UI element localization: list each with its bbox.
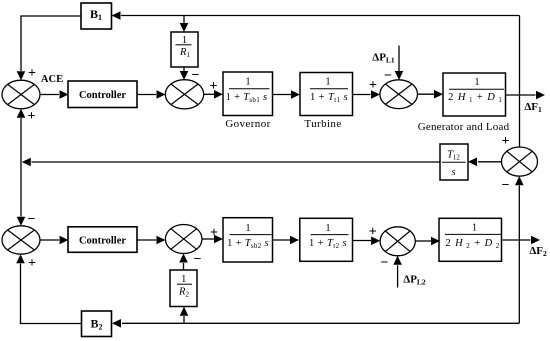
wire 1/R2 output up into S6 bottom <box>179 254 188 271</box>
svg-text:+: + <box>369 225 377 240</box>
svg-text:Governor: Governor <box>225 118 270 130</box>
svg-text:+: + <box>28 66 36 81</box>
svg-text:ΔF2: ΔF2 <box>529 245 547 258</box>
svg-text:Controller: Controller <box>79 236 126 247</box>
svg-text:Turbine: Turbine <box>304 118 341 130</box>
wire Generator 2 output to dF2 <box>503 236 541 245</box>
summing junction S2 (area 1 governor input) <box>165 80 203 109</box>
summing junction S4 (tie-line frequency difference) <box>502 147 538 176</box>
wire S2 to Governor box <box>204 90 223 99</box>
box Governor 2 transfer function <box>223 218 273 262</box>
wire S7 to Generator 2 box <box>415 237 440 246</box>
wire branch from top line down into 1/R1 box <box>180 16 189 33</box>
wire S3 to Generator and Load box <box>418 90 444 99</box>
svg-text:1: 1 <box>472 223 477 234</box>
wire B2 output to S5 bottom <box>16 254 81 323</box>
wire Turbine 2 to summing junction S7 <box>352 237 380 246</box>
svg-text:2 H 1 + D 1: 2 H 1 + D 1 <box>448 92 503 104</box>
box B1 <box>81 3 112 29</box>
wire bottom feedback line to B2 <box>112 319 519 328</box>
box Controller 1 <box>68 81 137 108</box>
wire right vertical from bottom line up into S4 bottom <box>515 176 524 323</box>
svg-text:Controller: Controller <box>79 90 126 101</box>
wire load disturbance dP_L2 up into S7 bottom <box>393 256 402 288</box>
svg-text:−: − <box>502 178 510 193</box>
wire Governor 2 to Turbine 2 <box>273 236 300 245</box>
wire Governor to Turbine <box>273 90 301 99</box>
wire Turbine to summing junction S3 <box>353 90 381 99</box>
wire S4 output to T12/s box <box>468 158 502 167</box>
box Generator and Load 1 transfer function <box>443 73 506 116</box>
svg-text:2 H 2 + D 2: 2 H 2 + D 2 <box>445 238 500 250</box>
wire T12/s output across to left vertical node <box>22 158 440 167</box>
svg-text:1 + Tt1 s: 1 + Tt1 s <box>310 92 348 104</box>
wire tie line feedback down into S5 top <box>17 162 26 226</box>
summing junction S1 (area 1 ACE) <box>2 80 40 109</box>
svg-text:+: + <box>28 109 36 124</box>
wire B1 output to summing junction S1 top <box>17 16 81 80</box>
wire S1 to Controller 1 <box>40 90 69 99</box>
svg-text:B1: B1 <box>90 7 102 22</box>
box Controller 2 <box>68 227 137 253</box>
svg-text:1 + Tsb1 s: 1 + Tsb1 s <box>226 92 268 104</box>
summing junction S5 (area 2 ACE) <box>2 226 40 254</box>
box Turbine 1 transfer function <box>300 73 353 116</box>
svg-text:1: 1 <box>325 77 330 88</box>
box 1/R2 (droop area 2) <box>170 270 197 307</box>
wire Controller 2 to summing junction S6 <box>137 236 165 245</box>
box 1/R1 (droop area 1) <box>171 32 198 67</box>
svg-text:1: 1 <box>474 77 479 88</box>
svg-text:1: 1 <box>181 274 186 285</box>
box T12/s tie line <box>440 144 468 180</box>
svg-text:ΔPL2: ΔPL2 <box>403 274 426 287</box>
svg-text:+: + <box>502 134 510 149</box>
box Generator and Load 2 transfer function <box>439 218 502 261</box>
wire S6 to Governor 2 <box>202 235 223 244</box>
svg-text:1: 1 <box>245 223 250 234</box>
svg-text:1: 1 <box>325 223 330 234</box>
wire 1/R1 output down into S2 top <box>180 67 189 80</box>
svg-text:ACE: ACE <box>41 74 63 85</box>
svg-text:Generator and Load: Generator and Load <box>418 121 510 133</box>
wire Controller 1 to summing junction S2 <box>137 90 166 99</box>
summing junction S7 (area 2 load) <box>380 227 415 256</box>
wire tie line feedback up into S1 bottom <box>17 109 26 162</box>
wire right vertical from top line down to S4 top <box>519 16 521 148</box>
svg-text:B2: B2 <box>90 317 102 332</box>
svg-text:1 + Tsb2 s: 1 + Tsb2 s <box>227 238 269 250</box>
box Turbine 2 transfer function <box>300 218 353 261</box>
svg-text:ΔF1: ΔF1 <box>524 101 542 114</box>
svg-text:1 + Tt2 s: 1 + Tt2 s <box>309 238 347 250</box>
svg-text:+: + <box>28 256 36 271</box>
svg-text:+: + <box>369 78 377 93</box>
summing junction S6 (area 2 governor input) <box>165 225 202 254</box>
svg-text:R2: R2 <box>178 286 189 298</box>
svg-text:R1: R1 <box>179 47 190 59</box>
svg-text:s: s <box>451 167 455 178</box>
box B2 <box>82 311 112 337</box>
wire top feedback line from right vertical to B1 <box>112 11 520 20</box>
svg-text:T12: T12 <box>447 150 460 162</box>
svg-text:1: 1 <box>245 77 250 88</box>
wire bottom feedback branch up into 1/R2 bottom <box>180 307 189 324</box>
svg-text:ΔPL1: ΔPL1 <box>372 52 395 65</box>
svg-text:−: − <box>381 256 389 271</box>
wire S5 to Controller 2 <box>40 236 69 245</box>
wire load disturbance dP_L1 into S3 top <box>395 46 404 81</box>
box Governor 1 transfer function <box>223 72 273 116</box>
svg-text:−: − <box>194 252 202 267</box>
summing junction S3 (area 1 load) <box>380 80 418 109</box>
wire Generator output to dF1 <box>506 91 546 100</box>
svg-text:−: − <box>28 212 36 227</box>
